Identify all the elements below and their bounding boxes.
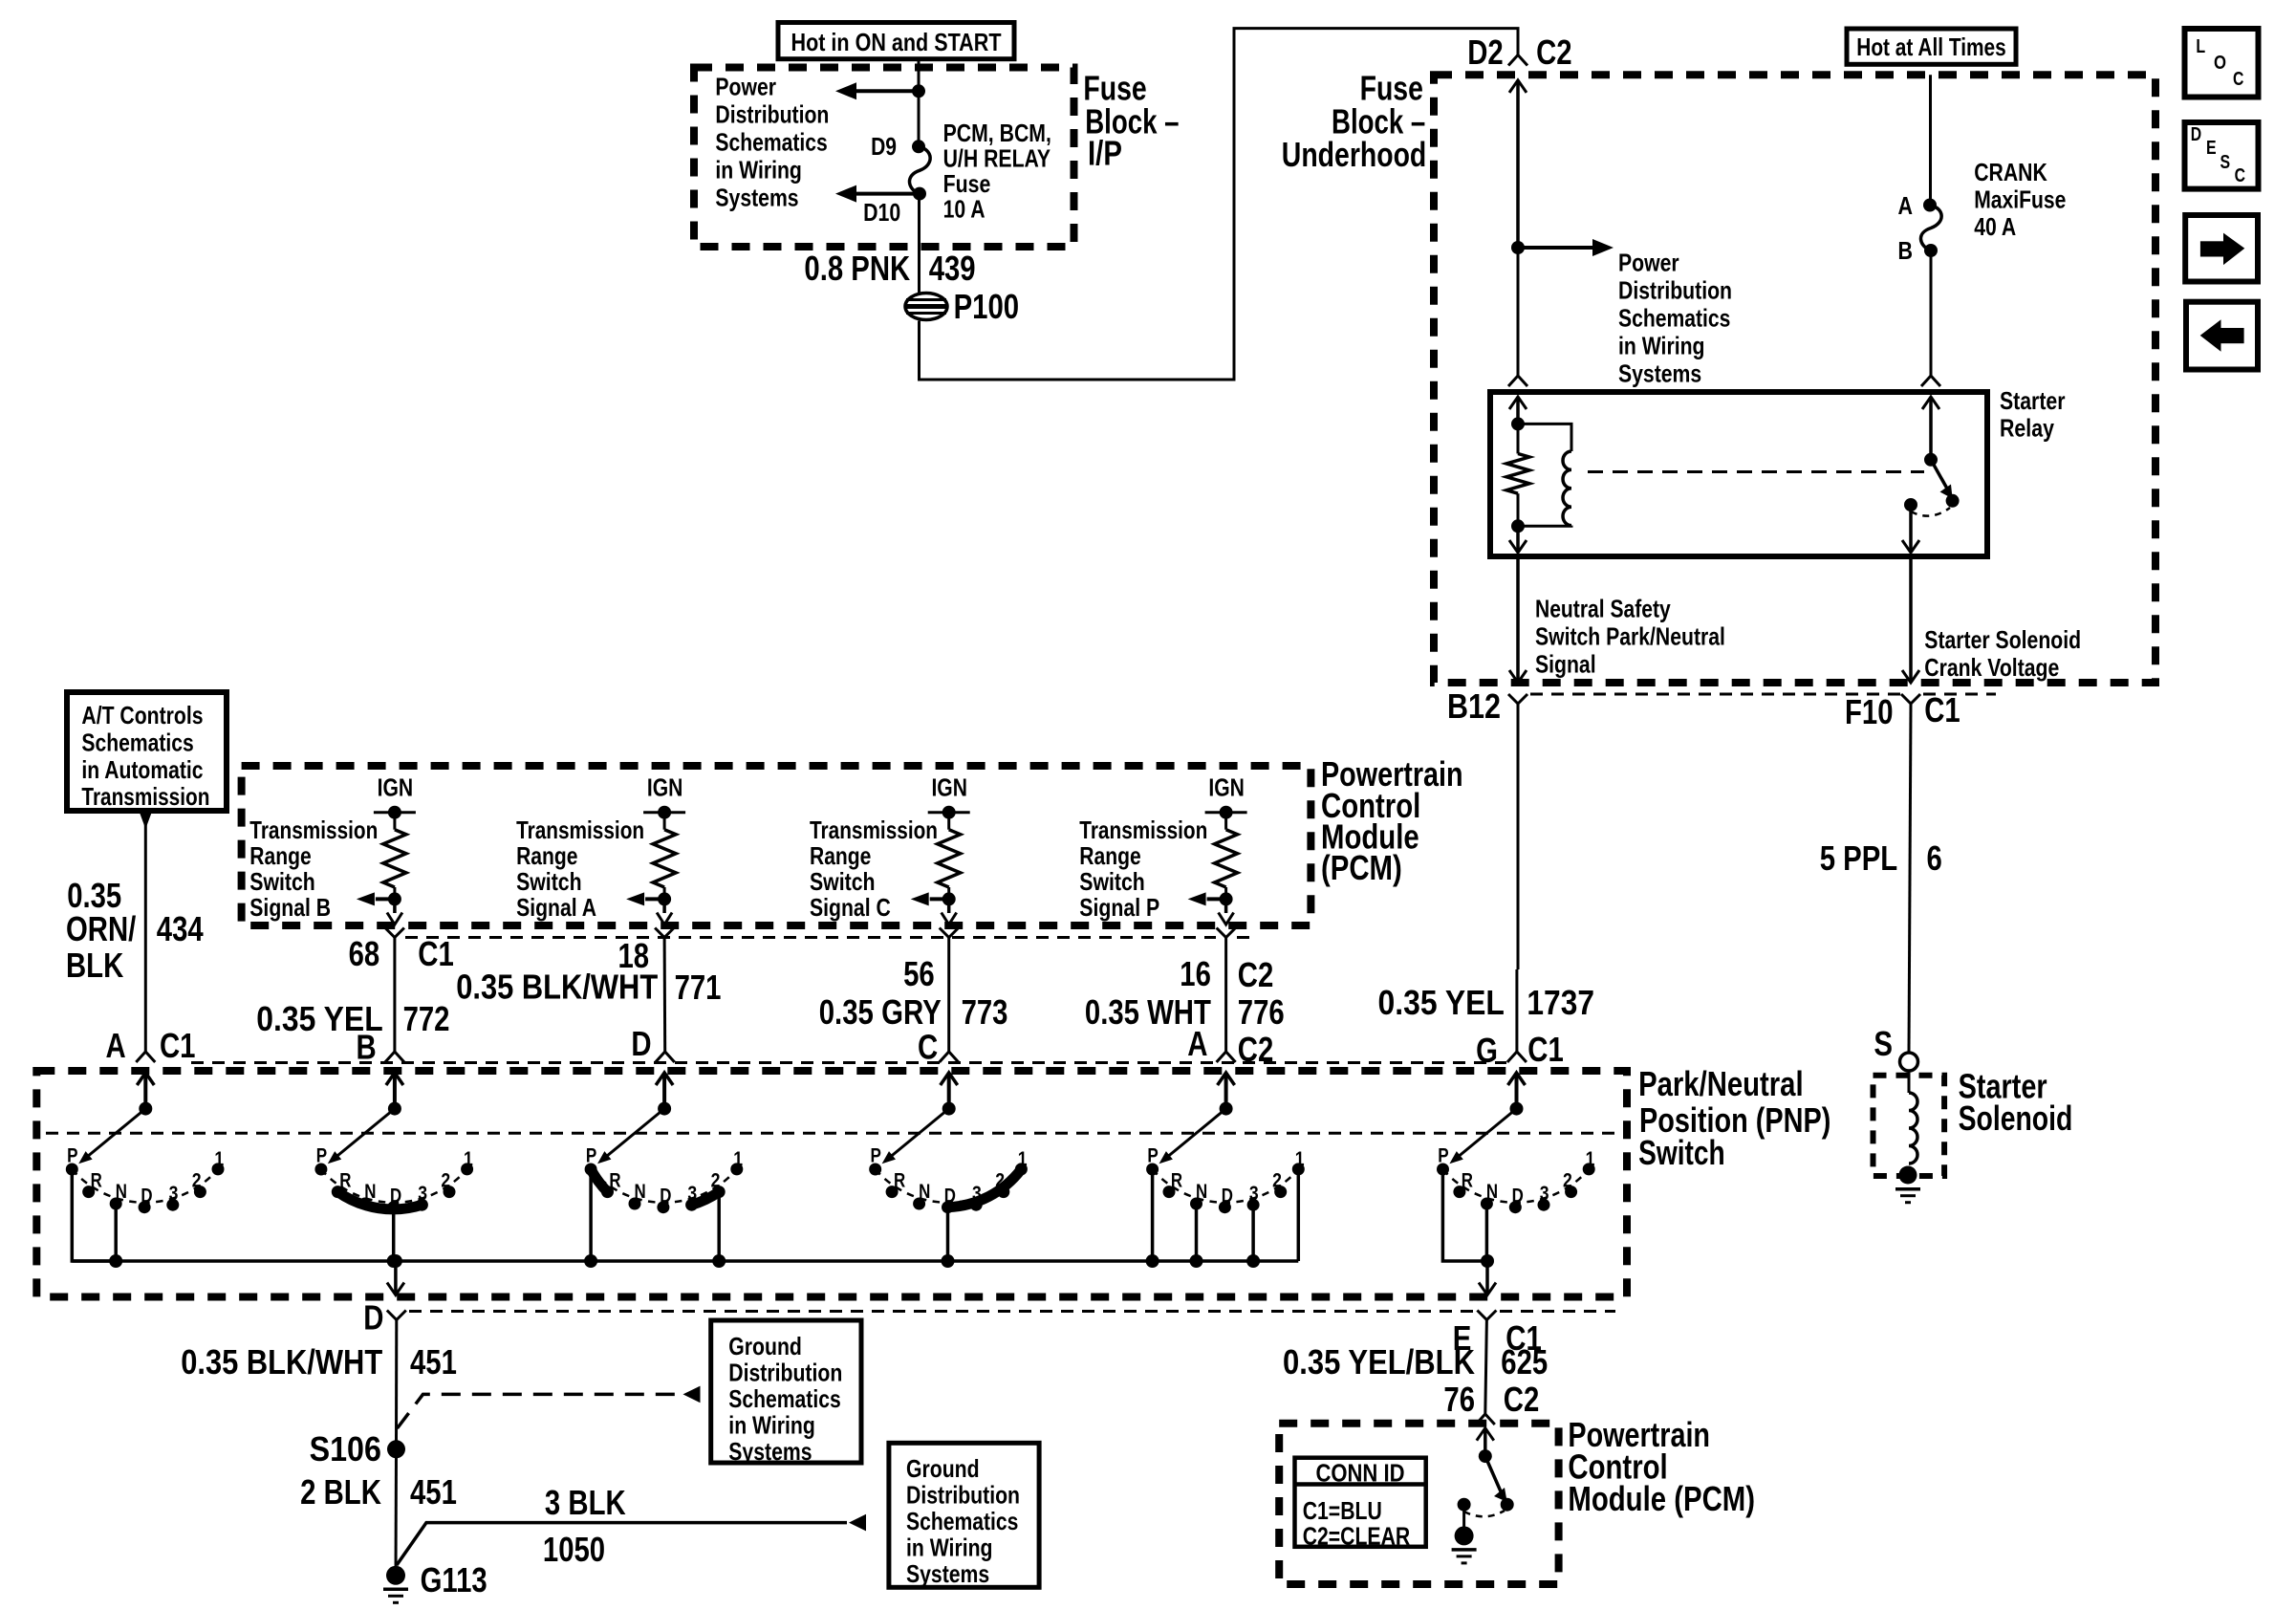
label: Power Distribution Schematics in Wiring Systems (I/P) xyxy=(715,73,829,212)
contact arc dashed (wafer S6) xyxy=(1443,1169,1590,1203)
svg-text:771: 771 xyxy=(675,968,722,1007)
rotary switch wafer S1: arrow from pivot to P xyxy=(78,1102,152,1164)
pin C2 xyxy=(1536,33,1572,72)
svg-text:Park/Neutral: Park/Neutral xyxy=(1638,1064,1804,1103)
wire 0.35 WHT 776 (pin 16 C2 to PNP A) xyxy=(1224,938,1227,1054)
pull-up resistor (branch 1) xyxy=(383,813,406,900)
pin D2 xyxy=(1467,33,1504,72)
wire label: 0.35 YEL 1737 xyxy=(1378,983,1595,1022)
svg-text:P: P xyxy=(871,1145,881,1167)
svg-text:D: D xyxy=(1222,1186,1233,1207)
terminal ring at S xyxy=(1900,1053,1918,1071)
label: Transmission Range Switch Signal B xyxy=(249,816,378,922)
pin G of PNP switch xyxy=(1476,1031,1498,1070)
splice S106 xyxy=(387,1440,405,1458)
pin C1 label at 68 xyxy=(418,934,454,973)
node on bus at wafer S2 contact D xyxy=(387,1254,401,1268)
internal ground of PCM xyxy=(1452,1526,1477,1563)
relay switch blade with arrowhead xyxy=(1931,460,1953,499)
nav box DESC xyxy=(2185,122,2259,189)
svg-text:S: S xyxy=(1874,1024,1893,1063)
power label box: Hot at All Times xyxy=(1847,29,2016,64)
pin D10 xyxy=(863,198,900,227)
reference box: A/T Controls Schematics in Automatic Transmission xyxy=(67,692,227,811)
svg-text:1: 1 xyxy=(733,1148,743,1170)
relay switch pivot xyxy=(1924,453,1938,467)
svg-text:D9: D9 xyxy=(871,132,897,161)
svg-text:1050: 1050 xyxy=(543,1530,605,1569)
label: S106 xyxy=(310,1429,381,1469)
wire to PCM connector pin (branch 3) xyxy=(942,899,957,925)
svg-text:Distribution: Distribution xyxy=(728,1359,842,1387)
wire from contact 2 of wafer S3 to bus xyxy=(717,1192,721,1261)
svg-text:Systems: Systems xyxy=(1618,359,1701,388)
rotary switch wafer S5: arrow from pivot to P xyxy=(1159,1102,1233,1164)
svg-text:Fuse: Fuse xyxy=(943,169,991,198)
wire inside underhood block from D2 down to relay coil xyxy=(1509,80,1527,376)
svg-text:O: O xyxy=(2214,53,2226,74)
svg-text:Switch: Switch xyxy=(516,867,582,896)
node on bus at wafer S5 contact N xyxy=(1190,1254,1203,1268)
PCM connector chevron (branch 3) xyxy=(940,928,959,938)
rotary switch wafer S6: arrow from pivot to P xyxy=(1449,1102,1523,1164)
pin A of CRANK MaxiFuse xyxy=(1898,191,1914,220)
svg-text:in Wiring: in Wiring xyxy=(715,156,802,185)
arrow to transmission range switch Signal B xyxy=(357,892,395,905)
svg-text:Distribution: Distribution xyxy=(1618,276,1732,305)
svg-text:CONN ID: CONN ID xyxy=(1315,1459,1404,1488)
svg-text:A/T Controls: A/T Controls xyxy=(81,701,203,729)
node on bus at wafer S3 contact 2 xyxy=(712,1254,726,1268)
svg-text:Schematics: Schematics xyxy=(81,728,193,756)
svg-text:A: A xyxy=(1187,1024,1207,1063)
wire label: 3 BLK 1050 xyxy=(543,1483,626,1569)
connector chevron into relay (switch side) xyxy=(1921,376,1940,386)
svg-text:0.35 GRY: 0.35 GRY xyxy=(819,992,942,1032)
relay K: starter relay box xyxy=(1490,392,1987,556)
svg-text:Range: Range xyxy=(1079,841,1140,870)
svg-text:Relay: Relay xyxy=(2000,413,2054,442)
wire from contact 1 of wafer S5 to bus end (elbow) xyxy=(1297,1169,1301,1261)
contact dots and position labels (wafer S2) xyxy=(314,1145,473,1214)
svg-text:Schematics: Schematics xyxy=(1618,304,1730,333)
dashed reference wire from 451 to ground distribution xyxy=(398,1386,701,1428)
relay coil branch wire with up arrow xyxy=(1509,397,1527,424)
svg-text:Ground: Ground xyxy=(906,1454,980,1483)
svg-text:Transmission: Transmission xyxy=(249,816,378,844)
svg-text:N: N xyxy=(635,1181,646,1203)
node on bus at wafer S5 contact 3 xyxy=(1246,1254,1260,1268)
svg-text:16: 16 xyxy=(1180,954,1211,993)
arrow to Power Distribution Schematics (top) xyxy=(835,82,919,99)
contact arc dashed (wafer S1) xyxy=(72,1169,218,1203)
svg-text:3 BLK: 3 BLK xyxy=(545,1483,626,1522)
node: sense junction (branch 1) xyxy=(388,892,401,905)
pin 56 xyxy=(903,954,935,993)
node: coil top xyxy=(1511,417,1525,430)
pull-up resistor (branch 2) xyxy=(653,813,676,900)
svg-text:451: 451 xyxy=(410,1342,457,1382)
label: Park/Neutral Position (PNP) Switch xyxy=(1638,1064,1830,1172)
label: Starter Solenoid Crank Voltage xyxy=(1924,625,2081,682)
wire from PNP pin to wafer S1 pivot xyxy=(137,1073,154,1109)
wire from contact N of wafer S1 to bus xyxy=(114,1204,118,1261)
pass-through grommet P100 xyxy=(904,294,948,320)
svg-text:P: P xyxy=(1147,1145,1158,1167)
wire from PNP pin to wafer S4 pivot xyxy=(941,1073,958,1109)
label: Transmission Range Switch Signal P xyxy=(1079,816,1207,922)
wire 0.35 BLK/WHT 451 from PNP D to S106 xyxy=(395,1319,398,1443)
pin E at PNP bottom xyxy=(1453,1318,1472,1358)
wiper contact band 3-2 (wafer S3) xyxy=(692,1192,720,1206)
contact arc dashed (wafer S3) xyxy=(591,1169,737,1203)
svg-text:Range: Range xyxy=(516,841,577,870)
pin C1 at F10 xyxy=(1924,690,1960,729)
node on bus at wafer S5 contact P xyxy=(1146,1254,1159,1268)
svg-text:1737: 1737 xyxy=(1527,983,1594,1022)
wire 3 BLK 1050 branch to ground distribution xyxy=(397,1514,866,1565)
pin D of PNP switch xyxy=(631,1024,651,1063)
svg-text:2: 2 xyxy=(1563,1170,1572,1192)
svg-text:MaxiFuse: MaxiFuse xyxy=(1974,185,2066,214)
svg-text:3: 3 xyxy=(1249,1183,1259,1205)
svg-text:D2: D2 xyxy=(1467,33,1504,72)
relay switch output arrow to box bottom xyxy=(1902,505,1919,553)
svg-text:0.35 BLK/WHT: 0.35 BLK/WHT xyxy=(181,1342,382,1382)
PCM connector chevron (branch 4) xyxy=(1217,928,1236,938)
svg-text:Range: Range xyxy=(249,841,311,870)
PCM switch common contact xyxy=(1458,1498,1471,1512)
svg-text:5 PPL: 5 PPL xyxy=(1820,838,1898,878)
relay coil output arrow to box bottom xyxy=(1509,526,1527,553)
fuse: PCM, BCM, U/H RELAY Fuse 10 A xyxy=(909,140,930,200)
svg-text:G113: G113 xyxy=(421,1560,487,1599)
contact arc dashed (wafer S2) xyxy=(321,1169,467,1203)
pin C of PNP switch xyxy=(918,1028,938,1067)
svg-text:Distribution: Distribution xyxy=(906,1481,1020,1510)
pin A of PNP switch (C1) xyxy=(106,1026,126,1065)
wire to PCM connector pin (branch 1) xyxy=(387,899,402,925)
label: Starter Solenoid (component) xyxy=(1959,1066,2073,1138)
wire 5 PPL 6: F10 down to starter solenoid S xyxy=(1909,704,1911,1053)
svg-text:1: 1 xyxy=(1295,1148,1305,1170)
svg-text:P: P xyxy=(1438,1145,1448,1167)
svg-text:Systems: Systems xyxy=(728,1437,812,1466)
svg-text:434: 434 xyxy=(157,909,204,948)
relay switch NO contact xyxy=(1946,494,1960,508)
pin 16 xyxy=(1180,954,1211,993)
rotary switch wafer S3: arrow from pivot to P xyxy=(597,1102,671,1164)
svg-text:C: C xyxy=(2233,69,2243,90)
pin 76 xyxy=(1443,1380,1475,1419)
PCM connector chevron at pin 76 xyxy=(1476,1414,1495,1425)
svg-text:D: D xyxy=(141,1186,152,1207)
label: CRANK MaxiFuse 40 A xyxy=(1974,158,2066,241)
fuse block I/P dashed box xyxy=(694,68,1074,248)
svg-text:Systems: Systems xyxy=(715,184,798,212)
svg-text:68: 68 xyxy=(349,934,380,973)
IGN supply node (branch 4) xyxy=(1205,772,1247,818)
wire label: 0.35 YEL 772 xyxy=(256,999,449,1038)
svg-text:Power: Power xyxy=(1618,249,1679,277)
svg-text:Hot in ON and START: Hot in ON and START xyxy=(791,28,1002,56)
svg-text:Neutral Safety: Neutral Safety xyxy=(1535,595,1671,623)
connector F10 C1 of underhood fuse block xyxy=(1901,694,1920,704)
pin A of PNP switch (C2 side) xyxy=(1187,1024,1207,1063)
arrow from S6 junction to PNP box bottom (pin E) xyxy=(1479,1261,1496,1295)
svg-text:Switch Park/Neutral: Switch Park/Neutral xyxy=(1535,622,1725,651)
wire from contact P of wafer S1 to bus (elbow) xyxy=(72,1169,116,1261)
arrow to Power Distribution Schematics (underhood) xyxy=(1518,239,1614,256)
wire 0.35 YEL/BLK 625 from PNP E to PCM pin 76 xyxy=(1485,1319,1487,1414)
node: coil bottom xyxy=(1511,519,1525,533)
nav box back arrow xyxy=(2186,302,2258,370)
pin C2 label at PNP A xyxy=(1238,1030,1274,1069)
label: Powertrain Control Module (PCM) xyxy=(1321,754,1463,887)
wire from contact D of wafer S2 to bus xyxy=(392,1207,396,1261)
arrow D10 to Power Distribution Schematics xyxy=(835,185,920,203)
svg-text:C: C xyxy=(2235,165,2245,186)
wire from PCM switch common to internal ground xyxy=(1462,1505,1465,1527)
svg-text:C1: C1 xyxy=(418,934,454,973)
PNP bottom connector dashed line xyxy=(409,1310,1615,1313)
svg-text:B: B xyxy=(357,1028,377,1067)
wire: relay switch output to F10 xyxy=(1902,556,1919,683)
svg-text:Module (PCM): Module (PCM) xyxy=(1568,1479,1755,1518)
svg-text:C1=BLU: C1=BLU xyxy=(1303,1496,1382,1525)
wire from MaxiFuse B to starter relay switch xyxy=(1930,250,1933,376)
svg-text:B: B xyxy=(1898,236,1914,265)
connector B12 of underhood fuse block xyxy=(1508,694,1527,704)
starter solenoid coil winding xyxy=(1909,1071,1917,1164)
svg-text:ORN/: ORN/ xyxy=(66,909,136,948)
relay actuation dashed link xyxy=(1588,470,1924,473)
wire to PCM connector pin (branch 2) xyxy=(657,899,672,925)
reference box: Ground Distribution Schematics in Wiring Systems (1) xyxy=(711,1320,861,1466)
PCM switch contact (NO) xyxy=(1501,1498,1514,1512)
label: Fuse Block - I/P xyxy=(1083,69,1179,173)
PNP internal bus wire xyxy=(72,1259,1298,1263)
wire label: 0.35 BLK/WHT 771 xyxy=(456,968,721,1008)
ground G113 xyxy=(383,1566,408,1603)
svg-text:1: 1 xyxy=(464,1148,473,1170)
contact dots and position labels (wafer S4) xyxy=(869,1145,1028,1214)
svg-text:in Wiring: in Wiring xyxy=(728,1411,815,1440)
svg-text:C2=CLEAR: C2=CLEAR xyxy=(1303,1522,1411,1551)
dashed throw arc of PCM switch xyxy=(1464,1511,1505,1516)
svg-text:40 A: 40 A xyxy=(1974,212,2016,241)
node: sense junction (branch 3) xyxy=(942,892,956,905)
svg-text:D: D xyxy=(363,1297,383,1337)
svg-text:C1: C1 xyxy=(160,1026,196,1065)
PNP mechanical link dashed line xyxy=(46,1132,1617,1135)
node: bus output junction at D xyxy=(389,1254,402,1268)
pull-up resistor (branch 4) xyxy=(1215,813,1238,900)
svg-text:Starter: Starter xyxy=(2000,386,2066,415)
wire from contact N of wafer S6 down to pin E xyxy=(1485,1204,1489,1261)
svg-text:2: 2 xyxy=(192,1170,202,1192)
wire: Hot at All Times to CRANK MaxiFuse xyxy=(1929,75,1932,205)
svg-text:Signal P: Signal P xyxy=(1079,893,1159,922)
svg-text:BLK: BLK xyxy=(66,946,123,985)
svg-text:56: 56 xyxy=(903,954,935,993)
wire to fuse D9 xyxy=(918,91,921,146)
pull-up resistor (branch 3) xyxy=(938,813,961,900)
wire from contact P of wafer S3 to bus xyxy=(589,1169,593,1261)
power label box: Hot in ON and START xyxy=(778,23,1014,59)
pin 68 xyxy=(349,934,380,973)
IGN supply node (branch 3) xyxy=(928,772,970,818)
svg-text:N: N xyxy=(116,1181,127,1203)
svg-text:0.35 YEL: 0.35 YEL xyxy=(1378,983,1505,1022)
nav box forward arrow xyxy=(2185,215,2258,282)
wiper contact band D-1 (wafer S4) xyxy=(948,1169,1022,1207)
wire label: 0.35 BLK/WHT 451 xyxy=(181,1342,457,1382)
svg-text:6: 6 xyxy=(1927,838,1942,878)
PCM connector chevron (branch 2) xyxy=(655,928,674,938)
svg-text:76: 76 xyxy=(1443,1380,1475,1419)
svg-text:E: E xyxy=(2206,138,2217,159)
pin C2 at 76 xyxy=(1504,1380,1540,1419)
svg-text:D: D xyxy=(631,1024,651,1063)
svg-text:Signal: Signal xyxy=(1535,650,1596,679)
svg-text:N: N xyxy=(919,1181,930,1203)
contact arc dashed (wafer S5) xyxy=(1153,1169,1299,1203)
svg-text:Signal C: Signal C xyxy=(810,893,891,922)
starter solenoid dashed box xyxy=(1874,1076,1945,1176)
svg-text:Signal A: Signal A xyxy=(516,893,596,922)
nav box LOC xyxy=(2185,29,2259,98)
node: power distribution junction xyxy=(1511,241,1525,254)
PNP connector dashed line (top) xyxy=(191,1061,1506,1064)
wire from PNP pin to wafer S2 pivot xyxy=(386,1073,403,1109)
svg-text:B12: B12 xyxy=(1447,686,1501,726)
svg-text:S106: S106 xyxy=(310,1429,381,1469)
svg-text:C1: C1 xyxy=(1924,690,1960,729)
svg-text:Hot at All Times: Hot at All Times xyxy=(1856,33,2006,61)
svg-text:2 BLK: 2 BLK xyxy=(300,1472,381,1512)
svg-text:776: 776 xyxy=(1238,992,1285,1032)
svg-text:IGN: IGN xyxy=(1208,772,1245,801)
svg-text:D: D xyxy=(660,1186,671,1207)
wire 0.35 ORN/BLK 434 to PNP pin A xyxy=(144,824,147,1053)
contact dots and position labels (wafer S5) xyxy=(1146,1145,1305,1214)
svg-text:451: 451 xyxy=(410,1472,457,1512)
svg-text:Range: Range xyxy=(810,841,871,870)
svg-text:2: 2 xyxy=(1272,1170,1282,1192)
svg-text:Crank Voltage: Crank Voltage xyxy=(1924,653,2059,682)
wire to PCM connector pin (branch 4) xyxy=(1219,899,1234,925)
svg-text:Distribution: Distribution xyxy=(715,100,829,129)
wire from contact N of wafer S5 to bus xyxy=(1195,1204,1199,1261)
wire from Hot in ON and START into fuse block xyxy=(918,59,921,92)
svg-text:A: A xyxy=(1898,191,1914,220)
svg-text:R: R xyxy=(1462,1170,1473,1192)
svg-text:Switch: Switch xyxy=(810,867,876,896)
relay coil (inductor) xyxy=(1518,424,1571,526)
svg-text:0.35 BLK/WHT: 0.35 BLK/WHT xyxy=(456,968,658,1007)
svg-text:Starter Solenoid: Starter Solenoid xyxy=(1924,625,2081,654)
pin C1 at PNP E xyxy=(1505,1318,1542,1358)
pin C1 label at PNP A xyxy=(160,1026,196,1065)
svg-text:Switch: Switch xyxy=(249,867,315,896)
svg-text:625: 625 xyxy=(1501,1342,1548,1382)
svg-text:P: P xyxy=(316,1145,327,1167)
wire label: 0.35 YEL/BLK 625 xyxy=(1283,1342,1548,1382)
svg-text:Transmission: Transmission xyxy=(810,816,938,844)
svg-text:Systems: Systems xyxy=(906,1559,989,1588)
svg-text:1: 1 xyxy=(1586,1148,1595,1170)
wiper contact band R-3 (wafer S2) xyxy=(337,1192,422,1209)
svg-text:Transmission: Transmission xyxy=(1079,816,1207,844)
rotary switch wafer S4: arrow from pivot to P xyxy=(882,1102,956,1164)
svg-text:P100: P100 xyxy=(954,287,1020,326)
wire label: 0.8 PNK 439 xyxy=(804,249,975,288)
svg-text:R: R xyxy=(894,1170,905,1192)
svg-text:IGN: IGN xyxy=(931,772,967,801)
svg-text:Switch: Switch xyxy=(1079,867,1145,896)
arrow from bus to PNP box bottom (pin D) xyxy=(387,1261,404,1295)
svg-text:1: 1 xyxy=(214,1148,224,1170)
contact arc dashed (wafer S4) xyxy=(876,1169,1022,1203)
svg-text:I/P: I/P xyxy=(1088,134,1122,173)
node: sense junction (branch 4) xyxy=(1220,892,1233,905)
svg-text:C2: C2 xyxy=(1504,1380,1540,1419)
powertrain control module (bottom) dashed box xyxy=(1279,1424,1558,1584)
svg-text:P: P xyxy=(586,1145,596,1167)
IGN supply node (branch 2) xyxy=(643,772,685,818)
svg-text:3: 3 xyxy=(1540,1183,1549,1205)
wire from PNP pin to wafer S6 pivot xyxy=(1508,1073,1526,1109)
svg-text:Transmission: Transmission xyxy=(516,816,644,844)
svg-text:0.35 YEL/BLK: 0.35 YEL/BLK xyxy=(1283,1342,1475,1382)
node: sense junction (branch 2) xyxy=(658,892,671,905)
wire: fuse output leaving I/P block xyxy=(918,194,921,294)
fuse: CRANK MaxiFuse 40 A xyxy=(1920,199,1941,258)
svg-text:L: L xyxy=(2196,36,2205,57)
pin S of starter solenoid xyxy=(1874,1024,1893,1063)
svg-text:Switch: Switch xyxy=(1638,1133,1725,1172)
pin B12 xyxy=(1447,686,1501,726)
fuse block underhood dashed box xyxy=(1434,75,2155,683)
relay internal resistor xyxy=(1506,424,1529,526)
svg-text:in Wiring: in Wiring xyxy=(1618,332,1705,360)
svg-text:Signal B: Signal B xyxy=(249,893,331,922)
svg-text:C: C xyxy=(918,1028,938,1067)
pin B of PNP switch xyxy=(357,1028,377,1067)
svg-text:R: R xyxy=(1171,1170,1182,1192)
svg-text:IGN: IGN xyxy=(378,772,414,801)
IGN supply node (branch 1) xyxy=(374,772,416,818)
wire from PNP pin to wafer S5 pivot xyxy=(1218,1073,1235,1109)
wiper contact band P-R (wafer S3) xyxy=(591,1169,607,1192)
pin 18 xyxy=(618,936,650,975)
relay switch output contact xyxy=(1904,498,1917,511)
svg-text:772: 772 xyxy=(403,999,450,1038)
PNP connector chevrons at box top xyxy=(136,1052,155,1062)
relay switch common wire xyxy=(1922,397,1939,460)
CONN ID table xyxy=(1295,1458,1426,1551)
svg-text:Schematics: Schematics xyxy=(906,1507,1018,1535)
arrow to transmission range switch Signal A xyxy=(626,892,664,905)
wire label: 0.35 ORN/BLK 434 xyxy=(66,876,204,985)
node: ignition feed junction xyxy=(912,84,925,98)
pin C1 label at PNP G xyxy=(1527,1030,1564,1069)
svg-text:D10: D10 xyxy=(863,198,900,227)
svg-text:2: 2 xyxy=(441,1170,450,1192)
svg-text:C2: C2 xyxy=(1536,33,1572,72)
svg-text:D: D xyxy=(1512,1186,1524,1207)
